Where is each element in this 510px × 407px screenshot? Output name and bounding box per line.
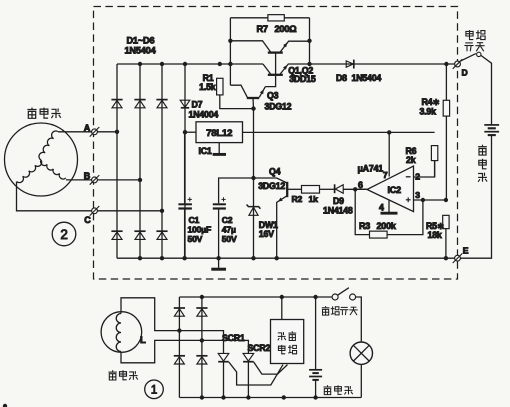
label R6: [406, 146, 417, 156]
label pin 2: [415, 171, 420, 181]
transistor Q4 base lead: [288, 188, 301, 190]
diode D7: [180, 100, 190, 108]
wire coil bottom lead: [121, 340, 202, 362]
wire R5 bottom: [445, 229, 447, 259]
junction dots on bottom rail: [138, 256, 448, 260]
label C1: [189, 215, 200, 225]
transistor Q3 base bar: [247, 97, 259, 99]
label SCR1: [222, 333, 245, 343]
transistor Q2 collector lead: [263, 64, 271, 74]
svg-text:R7: R7: [257, 24, 268, 34]
label IC1: [199, 146, 212, 156]
label 1N4148: [323, 205, 353, 215]
ground stub below rail: [218, 258, 220, 268]
scan speck bottom-left: [3, 404, 7, 407]
lighting switch blade: [338, 288, 349, 296]
svg-text:C: C: [84, 215, 91, 225]
transistor Q2 emitter arrow: [283, 65, 287, 70]
IC1 ground bar: [213, 153, 226, 156]
bridge leg 1 wire: [116, 64, 118, 258]
wire phase A to bridge: [58, 131, 117, 133]
label DW1: [259, 220, 278, 230]
label A: [84, 123, 91, 133]
label 3DG12 of Q3: [265, 102, 292, 112]
label C: [84, 215, 91, 225]
wire Q1-Q2 base link: [275, 53, 277, 75]
transistor Q3 collector lead: [230, 85, 247, 97]
svg-text:7: 7: [383, 170, 388, 180]
svg-text:D7: D7: [192, 100, 203, 110]
label R7: [257, 24, 268, 34]
svg-text:50V: 50V: [188, 234, 203, 244]
op-amp IC2 triangle: [367, 166, 414, 212]
label 开关 (switch): [464, 43, 484, 52]
wire phase C to bridge: [17, 182, 163, 211]
op-amp pin 6 wire: [355, 188, 367, 190]
svg-text:A: A: [84, 123, 91, 133]
label pin 6: [358, 180, 363, 190]
transistor Q1 emitter arrow: [283, 43, 287, 48]
label IC2: [388, 185, 402, 195]
battery (lower) plates: [309, 370, 322, 380]
transistor Q3 emitter arrow: [260, 89, 264, 94]
label 电路 (circuit): [278, 345, 296, 354]
svg-text:R3: R3: [359, 221, 370, 231]
op-amp pin 4 ground bar: [381, 212, 398, 215]
generator winding to A: [39, 131, 58, 160]
wire SCR1 cathode: [223, 362, 225, 398]
label pin 3: [415, 190, 420, 200]
ground bar: [211, 268, 226, 271]
wire battery1 bottom: [315, 380, 317, 397]
wire SCR2 gate: [254, 362, 288, 374]
generator winding to B: [41, 160, 66, 179]
battery (upper) plates: [484, 125, 499, 135]
feedback wire with R3: [355, 189, 423, 234]
capacitor C1 bottom lead: [184, 210, 186, 259]
wire AC2 to SCR2: [202, 340, 249, 353]
wire R1 to base node: [220, 95, 254, 109]
label E: [463, 245, 469, 255]
wire coil top lead: [121, 298, 179, 331]
svg-text:2: 2: [60, 227, 67, 242]
svg-text:Q3: Q3: [267, 91, 279, 101]
wire bus right of Q2: [289, 63, 455, 65]
transistor Q1 base bar: [268, 51, 283, 53]
inductor L coil: [116, 314, 121, 352]
transistor Q4 base bar: [286, 182, 288, 197]
svg-text:1N4004: 1N4004: [189, 110, 219, 120]
svg-text:6: 6: [358, 180, 363, 190]
transistor Q4 emitter arrow: [278, 198, 283, 202]
svg-text:2k: 2k: [406, 155, 416, 165]
capacitor C1: [178, 197, 192, 208]
svg-text:D1~D6: D1~D6: [127, 36, 155, 46]
resistor R3: [370, 231, 388, 238]
node C junction: [160, 209, 164, 213]
label 控制 (control): [278, 331, 296, 340]
zener DW1: [247, 205, 261, 216]
label R4*: [422, 97, 440, 107]
label C2: [222, 215, 233, 225]
label 3DD15: [289, 74, 316, 84]
junction dots circuit1 rails: [200, 295, 318, 400]
capacitor C1 top lead: [184, 132, 186, 203]
svg-text:Q4: Q4: [269, 166, 281, 176]
diode D5: [134, 231, 145, 239]
transistor Q2 base bar: [268, 74, 283, 76]
svg-text:D9: D9: [333, 196, 344, 206]
op-amp plus sign: [406, 197, 411, 202]
top rail of circuit 1: [179, 296, 332, 298]
op-amp pin 7 wire: [388, 132, 390, 176]
svg-text:R2: R2: [292, 194, 303, 204]
diode D9: [335, 184, 344, 193]
node R4 top junction: [444, 62, 448, 66]
circled numeral 2: [52, 222, 76, 246]
power switch blade: [460, 54, 476, 62]
label 3.9k: [420, 106, 437, 116]
thyristor SCR2: [243, 353, 254, 361]
label pin 7: [383, 170, 388, 180]
control circuit box: [271, 320, 304, 364]
wire 78L12 output to R6: [243, 131, 435, 133]
svg-text:16V: 16V: [259, 229, 274, 239]
wire right emitter vertical: [309, 18, 311, 64]
connector A: [90, 127, 100, 137]
wire left collector vertical: [229, 18, 231, 85]
label R1: [203, 73, 214, 83]
resistor R5: [443, 215, 449, 228]
diode upper-right of circuit 1: [196, 308, 207, 316]
svg-text:D: D: [462, 67, 468, 77]
diode D6: [156, 231, 167, 239]
thyristor SCR1: [218, 353, 229, 361]
wire lamp to bottom rail: [360, 364, 362, 397]
label 磁电机 (generator): [27, 108, 60, 119]
svg-text:50V: 50V: [222, 234, 237, 244]
node pin3 divider junction: [444, 198, 448, 202]
node DW1 top junction: [251, 176, 255, 180]
op-amp pin 2 wire: [414, 161, 435, 177]
label 1k: [309, 194, 319, 204]
svg-text:SCR1: SCR1: [222, 333, 245, 343]
label 磁电机 (magneto): [108, 370, 137, 380]
wire D9 to pin6: [343, 188, 367, 190]
label pin 4: [379, 202, 384, 212]
svg-text:D8: D8: [336, 73, 347, 83]
label 200 ohm: [275, 24, 297, 34]
svg-text:2: 2: [415, 171, 420, 181]
svg-text:4: 4: [379, 202, 384, 212]
capacitor C2 top lead: [219, 178, 254, 203]
svg-text:1N5404: 1N5404: [125, 46, 157, 56]
svg-text:1k: 1k: [309, 194, 319, 204]
label 1N4004: [189, 110, 219, 120]
op-amp minus sign: [406, 176, 411, 178]
svg-text:3.9k: 3.9k: [420, 106, 437, 116]
resistor R7: [268, 15, 284, 21]
label 100uF: [188, 224, 212, 234]
node AC1 junction: [177, 328, 181, 332]
label L: [140, 335, 146, 346]
op-amp pin 3 wire: [414, 199, 446, 201]
capacitor C2: [213, 197, 226, 208]
connector C: [90, 206, 100, 216]
diode D2: [134, 100, 145, 108]
svg-text:1N4148: 1N4148: [323, 205, 353, 215]
resistor R4: [443, 100, 449, 116]
label 1N5404 for D1-D6: [125, 46, 157, 56]
label 47u: [222, 224, 236, 234]
label D9: [333, 196, 344, 206]
label D7: [192, 100, 203, 110]
node pin6 junction: [353, 187, 357, 191]
diode D8: [346, 60, 354, 69]
svg-text:E: E: [463, 245, 469, 255]
control box top stub: [281, 297, 283, 320]
label 1.5k: [199, 82, 216, 92]
label 蓄电池 (battery) lower: [324, 385, 353, 394]
svg-text:SCR2: SCR2: [248, 343, 271, 353]
wire 78L12 input: [185, 131, 196, 133]
wire switch to lamp: [356, 297, 362, 342]
junction dots R7 right: [307, 39, 311, 67]
label D: [462, 67, 468, 77]
magneto (lighting coil) outline: [101, 312, 142, 353]
wire switch to battery rail: [481, 55, 492, 124]
label 2k: [406, 155, 416, 165]
op-amp pin 4 stub: [388, 200, 390, 212]
svg-text:1N5404: 1N5404: [352, 73, 382, 83]
svg-text:3: 3: [415, 190, 420, 200]
label B: [84, 171, 91, 181]
svg-text:200Ω: 200Ω: [275, 24, 297, 34]
dashed enclosure of regulator circuit 2: [94, 7, 458, 280]
label uA741: [358, 164, 384, 174]
generator winding to C: [17, 160, 42, 183]
node A junction: [115, 130, 119, 134]
label Q4: [269, 166, 281, 176]
svg-text:B: B: [84, 171, 91, 181]
label D8: [336, 73, 347, 83]
wire battery down to E: [460, 136, 491, 259]
rectifier leg 1 of circuit 1: [178, 297, 180, 398]
svg-text:200k: 200k: [377, 221, 397, 231]
transistor Q4 collector lead: [253, 178, 287, 183]
node Q3-base junction: [251, 106, 255, 110]
top bus wire of bridge: [117, 63, 263, 65]
resistor R6: [431, 146, 437, 161]
wire R2 to D9: [320, 188, 335, 190]
wire phase B to bridge: [66, 179, 140, 181]
bridge leg 3 wire: [161, 64, 163, 258]
svg-text:3DG12: 3DG12: [258, 181, 285, 191]
label 50V of C2: [222, 234, 237, 244]
transistor Q1 emitter lead: [280, 41, 309, 52]
label SCR2: [248, 343, 271, 353]
wire SCR2 cathode: [247, 362, 249, 398]
junction dots on top bus: [138, 62, 233, 66]
bridge leg 2 wire: [139, 64, 141, 258]
label 16V: [259, 229, 274, 239]
diode D3: [156, 100, 167, 108]
svg-text:L: L: [140, 335, 146, 346]
svg-text:3DD15: 3DD15: [289, 74, 316, 84]
circled numeral 1: [145, 380, 164, 399]
svg-text:1: 1: [151, 385, 157, 397]
wire Q2 base to Q3 emitter: [265, 75, 275, 87]
label 照明开关 (lighting switch): [322, 306, 358, 315]
label Q3: [267, 91, 279, 101]
wire battery1 top: [315, 297, 317, 369]
rectifier leg 2 of circuit 1: [201, 297, 203, 398]
diode D4: [111, 231, 122, 239]
connector E: [453, 253, 463, 263]
regulator IC1 78L12 box: [196, 122, 243, 143]
transistor Q1 collector lead: [230, 41, 270, 52]
transistor Q4 emitter lead: [277, 196, 287, 258]
lamp: [350, 342, 372, 364]
generator M (three-phase magneto) outline: [5, 123, 78, 196]
IC1 ground stub: [218, 143, 220, 154]
svg-text:18k: 18k: [428, 230, 442, 240]
diode D1: [111, 100, 122, 108]
svg-text:IC2: IC2: [388, 185, 402, 195]
label 50V of C1: [188, 234, 203, 244]
wire R6 bottom: [434, 161, 436, 177]
wire SCR1 gate: [229, 362, 283, 385]
svg-text:1.5k: 1.5k: [199, 82, 216, 92]
diode upper-left of circuit 1: [174, 308, 185, 316]
label R2: [292, 194, 303, 204]
transistor Q3 base stub: [252, 98, 255, 109]
wire AC1 to SCR1: [179, 331, 223, 353]
svg-text:μA741: μA741: [358, 164, 384, 174]
svg-text:IC1: IC1: [199, 146, 212, 156]
label 18k: [428, 230, 442, 240]
connector B: [90, 175, 100, 185]
diode lower-right of circuit 1: [196, 356, 207, 364]
resistor R2: [302, 186, 320, 194]
wire R7 top: [230, 17, 309, 19]
label R3: [359, 221, 370, 231]
node pin3 feedback junction: [421, 198, 425, 202]
label Q1,Q2: [288, 66, 313, 76]
wire D7 leg: [184, 64, 186, 258]
bottom rail of circuit 1: [179, 397, 361, 399]
node AC2 junction: [200, 338, 204, 342]
label 1N5404 of D8: [352, 73, 382, 83]
bottom bus wire (ground rail): [117, 257, 455, 259]
label D1~D6: [127, 36, 155, 46]
transistor Q3 emitter lead: [259, 87, 265, 98]
diode lower-left of circuit 1: [174, 356, 185, 364]
node 78L12 input junction: [183, 130, 187, 134]
label 3DG12 of Q4: [258, 181, 285, 191]
svg-text:78L12: 78L12: [206, 128, 232, 139]
lighting switch contact left: [332, 294, 338, 300]
svg-text:3DG12: 3DG12: [265, 102, 292, 112]
resistor R1: [217, 78, 223, 95]
lighting switch contact right: [350, 294, 356, 300]
wire Q3 base vertical: [253, 109, 255, 259]
connector D: [453, 59, 463, 69]
transistor Q2 emitter lead: [280, 64, 288, 74]
capacitor C2 bottom lead: [218, 210, 220, 259]
label R5*: [426, 221, 444, 231]
power switch contact: [477, 52, 481, 56]
node B junction: [138, 178, 142, 182]
label 电源 (power): [466, 30, 485, 39]
wire R4 from bus: [445, 64, 447, 200]
label 蓄电池 vertical: [478, 145, 487, 182]
label 200k: [377, 221, 397, 231]
junction dots R7 left: [228, 39, 232, 67]
junction pin7 supply: [387, 130, 391, 134]
